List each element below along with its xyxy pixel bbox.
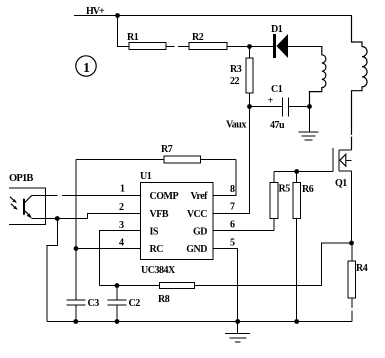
wire pin5 GND down [213,249,238,322]
junction GND/bottom rail [235,319,240,324]
svg-text:1: 1 [120,184,125,195]
wire junction down to ground [309,107,311,133]
junction R6/bottom rail [294,319,299,324]
svg-text:D1: D1 [271,24,283,35]
wire opto collector to pin1 (with break) [32,195,58,197]
svg-text:R5: R5 [279,184,291,195]
resistor R6 [293,172,314,322]
resistor R4 [348,243,368,322]
resistor R7 [76,144,236,163]
junction C2/bottom rail [115,319,120,324]
svg-text:Q1: Q1 [335,178,347,189]
wire C1 to winding/ground junction [289,106,310,108]
wire HV+ down to R1 [118,16,130,47]
circled 1 marker [76,56,96,76]
inductor aux winding [310,47,326,107]
svg-text:2: 2 [119,202,124,213]
diode D1 [271,24,288,58]
svg-text:GND: GND [186,244,207,255]
svg-text:R3: R3 [230,64,242,75]
IC U1 UC384X [140,171,213,276]
wire R1-R2 dashed break [166,46,175,48]
wire opto emitter line [32,218,88,220]
svg-text:COMP: COMP [150,191,179,202]
wire pin6 GD to R5 [213,230,274,232]
wire pin8 Vref to R7 right [213,160,236,196]
svg-text:1: 1 [83,61,90,76]
resistor R8 [99,282,194,305]
wire Vaux to C1 [250,106,283,108]
wire bottom ground rail [47,321,352,323]
svg-text:R2: R2 [192,32,204,43]
wire emitter to bottom rail [47,219,57,322]
junction emitter/ground branch [55,216,60,221]
wire D1 to aux winding [288,46,322,48]
wire pin2 VFB jog down to emitter line [87,214,140,219]
wire HV+ rail [74,15,352,17]
junction R2/R3/D1 [247,44,252,49]
resistor R3 with value 22 [230,47,253,107]
svg-text:RC: RC [150,244,164,255]
junction sense line/C2 [115,283,120,288]
svg-text:U1: U1 [140,171,152,182]
wire gate line [274,171,333,173]
wire pin3 IS to sense line [99,231,140,286]
junction HV+/R1 [115,13,120,18]
svg-text:OP1B: OP1B [9,173,33,184]
svg-text:Vaux: Vaux [226,120,246,131]
svg-text:22: 22 [230,76,240,87]
transistor Q1 MOSFET [333,148,352,189]
wire Q1 source down [351,171,353,243]
ground (main) [225,322,250,343]
svg-text:47u: 47u [270,120,285,131]
svg-text:R4: R4 [356,263,368,274]
junction source/R4/sense [349,241,354,246]
resistor R5 [270,172,290,231]
svg-text:5: 5 [230,238,235,249]
svg-text:R1: R1 [127,32,139,43]
svg-text:IS: IS [150,227,159,238]
resistor R1 [127,32,166,50]
resistor R2 [189,32,227,50]
capacitor C2 [108,286,141,322]
junction C1/aux winding/ground [307,104,312,109]
capacitor C1 47u polarized [268,84,289,131]
node Vaux [247,104,252,109]
wire Vaux down to VCC pin7 [213,107,250,214]
svg-text:VCC: VCC [187,209,207,220]
svg-text:C3: C3 [88,298,100,309]
svg-text:8: 8 [230,184,235,195]
svg-text:R6: R6 [302,184,314,195]
svg-text:UC384X: UC384X [141,265,176,276]
junction C3/bottom rail [73,319,78,324]
svg-text:R7: R7 [161,144,173,155]
ground (aux) [298,132,318,140]
svg-text:GD: GD [193,227,207,238]
wire R7 left vertical to RC and C3 [75,160,77,300]
svg-text:VFB: VFB [150,209,169,220]
capacitor C3 [67,298,100,322]
wire pin4 RC [76,248,141,250]
opto light arrows [10,197,18,210]
junction RC/R7/C3 [74,246,79,251]
inductor primary winding [352,16,368,151]
svg-text:R8: R8 [158,294,170,305]
opto phototransistor [23,196,32,219]
svg-text:C1: C1 [271,84,283,95]
svg-text:Vref: Vref [190,191,208,202]
svg-text:4: 4 [119,238,124,249]
svg-text:3: 3 [119,220,124,231]
svg-text:7: 7 [230,202,235,213]
wire R2 to D1 [227,46,273,48]
svg-text:C2: C2 [129,298,141,309]
svg-text:+: + [268,96,274,107]
wire current sense return to R8 [195,243,352,286]
optocoupler OP1B [9,173,46,225]
svg-text:6: 6 [230,220,235,231]
junction gate/R6 [294,169,299,174]
